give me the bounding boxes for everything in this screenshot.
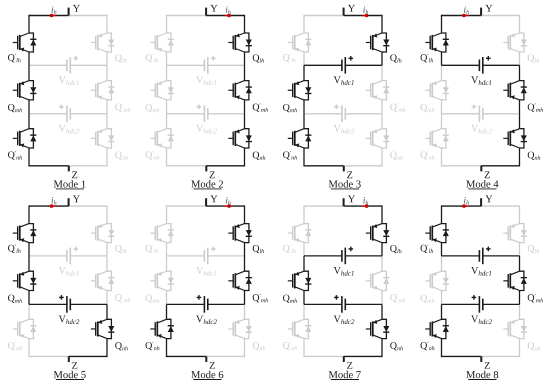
battery Vhdc1 (mode 7): [304, 247, 382, 265]
transistor Q'mh (mode 6): [228, 271, 252, 290]
wire left branch to Z (bottom): [29, 355, 69, 357]
wire right branch below Q4: [381, 243, 383, 256]
battery Vhdc1 (mode 4): [442, 56, 520, 74]
label Qnh (mode 6): [253, 342, 266, 350]
label Qmh (mode 3): [283, 104, 297, 112]
wire Z to right branch (bottom): [344, 355, 382, 357]
wire left branch above Q2: [166, 65, 168, 80]
wire Y to left branch (top): [442, 205, 482, 207]
wire left branch above Q2: [166, 256, 168, 271]
transistor Qlh (mode 2): [228, 33, 252, 52]
transistor Q'mh (mode 8): [503, 271, 527, 290]
wire left branch lower: [28, 148, 30, 167]
label Qlh (mode 7): [390, 245, 401, 253]
transistor Qnh (mode 1): [91, 129, 115, 148]
battery Vhdc2 (mode 8): [442, 295, 520, 313]
current marker ih (red dot with tail): [462, 204, 466, 208]
label Qmh (mode 7): [283, 295, 297, 303]
label Qlh (mode 3): [390, 54, 401, 62]
label Q'mh (mode 3): [390, 103, 405, 112]
wire right branch upper: [244, 205, 246, 223]
wire Y to right branch (top): [344, 205, 382, 207]
wire Z to right branch (bottom): [69, 165, 107, 167]
terminal Y tick: [68, 8, 70, 16]
wire right branch above Q6: [244, 304, 246, 319]
wire right branch below Q4: [519, 243, 521, 256]
wire left branch above Q2: [303, 65, 305, 80]
transistor Q'nh (mode 3): [288, 129, 312, 148]
transistor Qmh (mode 5): [13, 271, 37, 290]
battery Vhdc1 (mode 8): [442, 247, 520, 265]
terminal Y tick: [343, 198, 345, 206]
label Vhdc1 value: [334, 267, 354, 276]
label Q'nh (mode 6): [146, 342, 160, 351]
transistor Qmh (mode 4): [425, 81, 449, 100]
label Z: [485, 172, 490, 179]
label Vhdc1 value: [59, 76, 79, 85]
transistor Qnh (mode 4): [503, 129, 527, 148]
label Vhdc1 value: [334, 76, 354, 85]
wire left branch below Q2: [28, 100, 30, 114]
current marker ih (red dot with tail): [50, 204, 54, 208]
wire Z to right branch (bottom): [206, 355, 244, 357]
label Z: [210, 172, 215, 179]
transistor Qnh (mode 6): [228, 319, 252, 338]
wire right branch above Q5: [381, 256, 383, 271]
battery Vhdc2 (mode 7): [304, 295, 382, 313]
wire left branch lower: [303, 148, 305, 167]
wire left branch to Z (bottom): [304, 355, 344, 357]
transistor Q'lh (mode 3): [288, 33, 312, 52]
battery Vhdc1 (mode 1): [29, 56, 107, 74]
transistor Qlh (mode 7): [366, 224, 390, 243]
wire left branch above Q3: [441, 114, 443, 129]
wire Y to right branch (top): [69, 15, 107, 17]
wire right branch below Q5: [244, 100, 246, 114]
wire left branch above Q2: [441, 65, 443, 80]
wire right branch above Q6: [519, 304, 521, 319]
label Vhdc1 value: [471, 267, 491, 276]
wire right branch upper: [381, 205, 383, 223]
wire Z to right branch (bottom): [481, 355, 519, 357]
wire right branch below Q4: [244, 52, 246, 65]
terminal Y tick: [205, 8, 207, 16]
transistor Qnh (mode 7): [366, 319, 390, 338]
transistor Q'mh (mode 3): [366, 81, 390, 100]
label ih: [464, 197, 469, 205]
wire left branch above Q3: [166, 114, 168, 129]
wire Y to right branch (top): [206, 205, 244, 207]
label Qnh (mode 4): [528, 152, 541, 160]
underline Mode 4: [468, 188, 496, 190]
underline Mode 5: [56, 379, 84, 381]
wire right branch above Q5: [519, 256, 521, 271]
wire left branch below Q1: [441, 243, 443, 256]
wire right branch below Q5: [106, 100, 108, 114]
label Mode 5 caption: [54, 371, 86, 378]
transistor Q'lh (mode 1): [13, 33, 37, 52]
label Z: [72, 172, 77, 179]
battery Vhdc1 (mode 2): [167, 56, 245, 74]
label Mode 8 caption: [466, 371, 498, 378]
terminal Z tick: [480, 166, 482, 172]
terminal Z tick: [205, 356, 207, 362]
label Z: [347, 172, 352, 179]
wire left branch below Q1: [303, 243, 305, 256]
underline Mode 3: [331, 188, 359, 190]
wire right branch lower: [381, 148, 383, 167]
label Vhdc1 value: [196, 267, 216, 276]
label Qlh (mode 4): [528, 54, 539, 62]
wire left branch to Z (bottom): [167, 355, 207, 357]
transistor Qmh (mode 3): [288, 81, 312, 100]
underline Mode 1: [56, 188, 84, 190]
wire left branch lower: [28, 339, 30, 358]
wire right branch above Q5: [244, 65, 246, 80]
wire right branch below Q4: [519, 52, 521, 65]
wire right branch below Q4: [244, 243, 246, 256]
battery Vhdc2 (mode 5): [29, 295, 107, 313]
terminal Y tick: [205, 198, 207, 206]
wire Y to right branch (top): [481, 15, 519, 17]
label Y: [348, 5, 355, 12]
wire right branch upper: [106, 205, 108, 223]
transistor Qnh (mode 3): [366, 129, 390, 148]
terminal Z tick: [343, 166, 345, 172]
label Q'mh (mode 2): [253, 103, 268, 112]
wire left branch above Q3: [28, 304, 30, 319]
transistor Qlh (mode 8): [503, 224, 527, 243]
label Vhdc2 value: [471, 125, 492, 134]
wire left branch above Q3: [166, 304, 168, 319]
label Qnh (mode 3): [390, 152, 403, 160]
wire right branch above Q5: [381, 65, 383, 80]
label Vhdc2 value: [196, 316, 217, 325]
wire left branch above Q3: [303, 114, 305, 129]
wire left branch above Q3: [441, 304, 443, 319]
transistor Q'nh (mode 6): [150, 319, 174, 338]
battery Vhdc2 (mode 4): [442, 105, 520, 123]
terminal Y tick: [343, 8, 345, 16]
label ih: [226, 7, 231, 15]
label Q'nh (mode 7): [283, 342, 297, 351]
label Vhdc2 value: [471, 316, 492, 325]
current marker ih (red dot with tail): [365, 14, 369, 18]
label Q'lh (mode 5): [8, 244, 21, 253]
battery Vhdc2 (mode 6): [167, 295, 245, 313]
transistor Q'lh (mode 8): [425, 224, 449, 243]
wire right branch above Q6: [381, 114, 383, 129]
label Q'lh (mode 8): [421, 244, 434, 253]
transistor Q'lh (mode 6): [150, 224, 174, 243]
label Mode 6 caption: [191, 371, 223, 378]
wire left branch to Z (bottom): [29, 165, 69, 167]
label Z: [210, 362, 215, 369]
wire right branch below Q5: [519, 291, 521, 305]
label ih: [226, 197, 231, 205]
transistor Qlh (mode 4): [503, 33, 527, 52]
label Q'mh (mode 5): [115, 294, 130, 303]
transistor Q'mh (mode 2): [228, 81, 252, 100]
current marker ih (red dot with tail): [365, 204, 369, 208]
transistor Qmh (mode 8): [425, 271, 449, 290]
label Q'nh (mode 4): [421, 151, 435, 160]
current marker ih (red dot with tail): [227, 204, 231, 208]
label Mode 3 caption: [329, 180, 361, 187]
wire right branch upper: [519, 205, 521, 223]
label Vhdc1 value: [59, 267, 79, 276]
label Vhdc1 value: [471, 76, 491, 85]
wire left branch below Q2: [303, 291, 305, 305]
wire left branch below Q2: [28, 291, 30, 305]
wire Z to right branch (bottom): [69, 355, 107, 357]
label ih: [52, 7, 57, 15]
wire left branch above Q2: [303, 256, 305, 271]
transistor Q'nh (mode 1): [13, 129, 37, 148]
label ih: [464, 7, 469, 15]
terminal Y tick: [480, 8, 482, 16]
transistor Qmh (mode 2): [150, 81, 174, 100]
transistor Qlh (mode 1): [91, 33, 115, 52]
wire left branch below Q1: [166, 243, 168, 256]
current marker ih (red dot with tail): [227, 14, 231, 18]
wire right branch lower: [106, 339, 108, 358]
terminal Z tick: [480, 356, 482, 362]
wire left branch below Q2: [441, 291, 443, 305]
transistor Q'nh (mode 7): [288, 319, 312, 338]
wire left branch lower: [303, 339, 305, 358]
wire left branch below Q2: [303, 100, 305, 114]
wire right branch below Q5: [381, 291, 383, 305]
wire right branch above Q6: [244, 114, 246, 129]
underline Mode 6: [193, 379, 221, 381]
label Y: [485, 5, 492, 12]
label Y: [210, 5, 217, 12]
wire right branch lower: [106, 148, 108, 167]
wire left branch above Q2: [28, 256, 30, 271]
wire Y to left branch (top): [167, 15, 207, 17]
wire right branch below Q5: [244, 291, 246, 305]
label Y: [348, 196, 355, 203]
wire left branch above Q2: [28, 65, 30, 80]
wire left branch upper: [28, 205, 30, 223]
terminal Z tick: [205, 166, 207, 172]
wire Y to left branch (top): [29, 205, 69, 207]
wire right branch below Q5: [381, 100, 383, 114]
terminal Z tick: [68, 356, 70, 362]
wire right branch below Q4: [106, 243, 108, 256]
wire right branch above Q5: [106, 65, 108, 80]
transistor Qmh (mode 1): [13, 81, 37, 100]
transistor Q'lh (mode 4): [425, 33, 449, 52]
wire left branch upper: [28, 15, 30, 33]
wire left branch to Z (bottom): [304, 165, 344, 167]
label Mode 7 caption: [329, 371, 361, 378]
label Z: [347, 362, 352, 369]
label Q'nh (mode 1): [8, 151, 22, 160]
transistor Q'mh (mode 1): [91, 81, 115, 100]
transistor Q'lh (mode 7): [288, 224, 312, 243]
wire left branch below Q1: [303, 52, 305, 65]
wire right branch above Q5: [519, 65, 521, 80]
transistor Q'nh (mode 8): [425, 319, 449, 338]
wire left branch upper: [303, 15, 305, 33]
transistor Qmh (mode 6): [150, 271, 174, 290]
wire left branch above Q3: [303, 304, 305, 319]
wire Y to left branch (top): [29, 15, 69, 17]
wire left branch below Q2: [441, 100, 443, 114]
battery Vhdc1 (mode 5): [29, 247, 107, 265]
label Q'mh (mode 4): [528, 103, 543, 112]
label Qmh (mode 6): [146, 295, 160, 303]
wire left branch below Q1: [28, 52, 30, 65]
wire right branch upper: [244, 15, 246, 33]
label Q'lh (mode 2): [146, 54, 159, 63]
wire right branch lower: [381, 339, 383, 358]
label Qlh (mode 8): [528, 245, 539, 253]
label Qnh (mode 8): [528, 342, 541, 350]
transistor Qlh (mode 5): [91, 224, 115, 243]
terminal Z tick: [68, 166, 70, 172]
label Qmh (mode 2): [146, 104, 160, 112]
wire right branch upper: [381, 15, 383, 33]
label Q'nh (mode 5): [8, 342, 22, 351]
terminal Y tick: [68, 198, 70, 206]
label Vhdc1 value: [196, 76, 216, 85]
label Vhdc2 value: [196, 125, 217, 134]
label Vhdc2 value: [59, 125, 80, 134]
label Qmh (mode 1): [8, 104, 22, 112]
transistor Q'mh (mode 5): [91, 271, 115, 290]
wire Y to left branch (top): [304, 205, 344, 207]
label Qlh (mode 1): [115, 54, 126, 62]
label Q'lh (mode 7): [283, 244, 296, 253]
transistor Q'mh (mode 7): [366, 271, 390, 290]
wire Y to left branch (top): [304, 15, 344, 17]
wire left branch to Z (bottom): [442, 165, 482, 167]
terminal Y tick: [480, 198, 482, 206]
label Qnh (mode 7): [390, 342, 403, 350]
wire right branch below Q5: [519, 100, 521, 114]
label Vhdc2 value: [334, 125, 355, 134]
wire right branch upper: [519, 15, 521, 33]
terminal Z tick: [343, 356, 345, 362]
transistor Qlh (mode 3): [366, 33, 390, 52]
label Q'lh (mode 1): [8, 54, 21, 63]
wire left branch lower: [441, 148, 443, 167]
label Y: [73, 5, 80, 12]
transistor Qnh (mode 2): [228, 129, 252, 148]
wire right branch above Q5: [244, 256, 246, 271]
label Y: [73, 196, 80, 203]
label ih: [363, 197, 368, 205]
wire left branch upper: [166, 205, 168, 223]
label Qmh (mode 5): [8, 295, 22, 303]
label Qnh (mode 1): [115, 152, 128, 160]
label Z: [72, 362, 77, 369]
transistor Q'nh (mode 4): [425, 129, 449, 148]
label Q'mh (mode 8): [528, 294, 543, 303]
battery Vhdc2 (mode 1): [29, 105, 107, 123]
transistor Qnh (mode 5): [91, 319, 115, 338]
battery Vhdc1 (mode 3): [304, 56, 382, 74]
label Vhdc2 value: [59, 316, 80, 325]
wire left branch below Q2: [166, 100, 168, 114]
wire right branch above Q6: [381, 304, 383, 319]
wire Y to right branch (top): [206, 15, 244, 17]
current marker ih (red dot with tail): [50, 14, 54, 18]
wire left branch below Q2: [166, 291, 168, 305]
label Y: [210, 196, 217, 203]
label ih: [52, 197, 57, 205]
wire right branch above Q5: [106, 256, 108, 271]
label Q'lh (mode 6): [146, 244, 159, 253]
wire right branch below Q4: [381, 52, 383, 65]
wire right branch below Q5: [106, 291, 108, 305]
transistor Q'lh (mode 5): [13, 224, 37, 243]
label Q'nh (mode 2): [146, 151, 160, 160]
label Z: [485, 362, 490, 369]
wire Z to right branch (bottom): [206, 165, 244, 167]
wire left branch lower: [166, 339, 168, 358]
transistor Q'mh (mode 4): [503, 81, 527, 100]
wire right branch below Q4: [106, 52, 108, 65]
label Y: [485, 196, 492, 203]
transistor Qlh (mode 6): [228, 224, 252, 243]
transistor Qnh (mode 8): [503, 319, 527, 338]
label Q'mh (mode 6): [253, 294, 268, 303]
battery Vhdc2 (mode 3): [304, 105, 382, 123]
wire right branch lower: [519, 148, 521, 167]
wire right branch above Q6: [106, 304, 108, 319]
wire Y to right branch (top): [69, 205, 107, 207]
wire left branch above Q2: [441, 256, 443, 271]
wire Y to left branch (top): [167, 205, 207, 207]
label Mode 4 caption: [466, 180, 498, 187]
label Mode 1 caption: [54, 180, 86, 187]
wire left branch upper: [441, 15, 443, 33]
label Qlh (mode 5): [115, 245, 126, 253]
wire Y to left branch (top): [442, 15, 482, 17]
battery Vhdc2 (mode 2): [167, 105, 245, 123]
wire left branch above Q3: [28, 114, 30, 129]
label Q'nh (mode 8): [421, 342, 435, 351]
label Q'lh (mode 3): [283, 54, 296, 63]
transistor Q'nh (mode 5): [13, 319, 37, 338]
underline Mode 8: [468, 379, 496, 381]
wire left branch lower: [166, 148, 168, 167]
wire left branch below Q1: [28, 243, 30, 256]
label Q'mh (mode 7): [390, 294, 405, 303]
label Q'mh (mode 1): [115, 103, 130, 112]
wire right branch above Q6: [519, 114, 521, 129]
label Vhdc2 value: [334, 316, 355, 325]
label Qmh (mode 8): [421, 295, 435, 303]
wire left branch upper: [441, 205, 443, 223]
wire Z to right branch (bottom): [344, 165, 382, 167]
wire right branch lower: [244, 148, 246, 167]
wire left branch upper: [303, 205, 305, 223]
battery Vhdc1 (mode 6): [167, 247, 245, 265]
transistor Qmh (mode 7): [288, 271, 312, 290]
wire Y to right branch (top): [344, 15, 382, 17]
label Q'lh (mode 4): [421, 54, 434, 63]
wire right branch upper: [106, 15, 108, 33]
wire left branch below Q1: [441, 52, 443, 65]
wire left branch upper: [166, 15, 168, 33]
label Qnh (mode 5): [115, 342, 128, 350]
wire left branch to Z (bottom): [442, 355, 482, 357]
